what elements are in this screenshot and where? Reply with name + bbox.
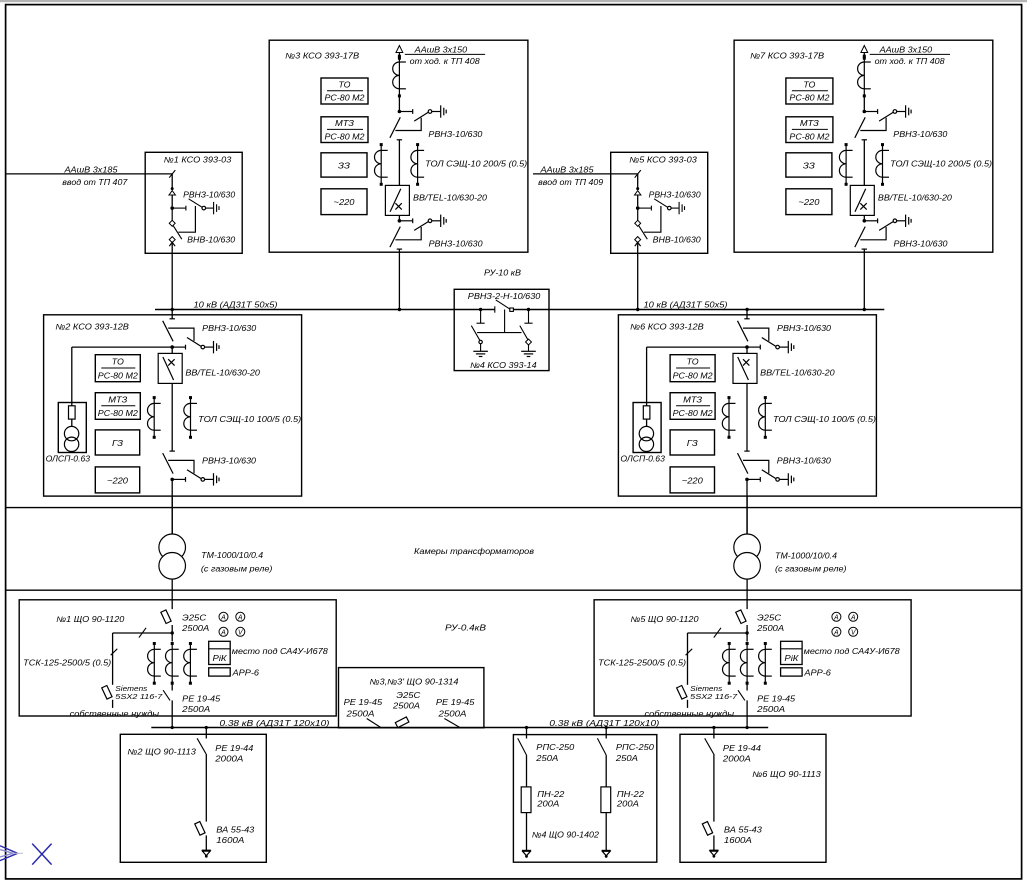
- breaker ВА 55-43 1600А: [195, 822, 205, 836]
- svg-text:от ход. к ТП 408: от ход. к ТП 408: [410, 57, 481, 66]
- svg-text:2500А: 2500А: [345, 710, 374, 719]
- svg-text:АAшВ 3х150: АAшВ 3х150: [414, 46, 468, 55]
- svg-text:200А: 200А: [616, 800, 639, 809]
- wire from bus: [746, 310, 748, 319]
- ammeter: [832, 627, 841, 636]
- relay box ГЗ: [95, 430, 139, 455]
- node: bus junction cell 5: [636, 308, 639, 311]
- current transformer ТОЛ СЭЩ-10 100/5 right: [184, 396, 197, 439]
- wire: 0.38 kV busbar right: [523, 727, 768, 729]
- svg-text:5SX2 116-7: 5SX2 116-7: [115, 692, 163, 701]
- device АРР-6: [781, 668, 803, 676]
- svg-text:РС-80 М2: РС-80 М2: [325, 132, 366, 141]
- panel box №2 ЩО 90-1113: [120, 734, 266, 862]
- panel box №5 ЩО 90-1120: [594, 600, 911, 716]
- svg-text:РЕ 19-45: РЕ 19-45: [182, 695, 221, 704]
- svg-text:2500А: 2500А: [392, 702, 420, 711]
- svg-text:РВНЗ-10/630: РВНЗ-10/630: [202, 456, 257, 465]
- wire: [746, 383, 748, 451]
- svg-text:№3,№3' ЩО 90-1314: №3,№3' ЩО 90-1314: [370, 677, 460, 686]
- svg-text:РЕ 19-44: РЕ 19-44: [215, 744, 254, 753]
- hinge square: [510, 308, 514, 311]
- svg-text:2500А: 2500А: [756, 624, 784, 633]
- wire: 10 kV busbar left section: [155, 309, 495, 311]
- voltage transformer circles: [64, 426, 78, 440]
- svg-text:МТЗ: МТЗ: [108, 395, 127, 404]
- svg-text:ТОЛ СЭЩ-10 200/5 (0.5): ТОЛ СЭЩ-10 200/5 (0.5): [890, 160, 992, 169]
- wire + outgoing arrow: [605, 813, 607, 850]
- svg-text:МТЗ: МТЗ: [683, 395, 702, 404]
- disconnector РВНЗ-10/630 upper: [390, 105, 446, 140]
- svg-text:ВНВ-10/630: ВНВ-10/630: [187, 235, 236, 244]
- svg-text:№1 КСО 393-03: №1 КСО 393-03: [164, 156, 232, 165]
- svg-text:А: А: [833, 615, 839, 622]
- svg-text:ОЛСП-0.63: ОЛСП-0.63: [46, 454, 91, 463]
- svg-text:А: А: [850, 615, 856, 622]
- svg-text:РВНЗ-10/630: РВНЗ-10/630: [202, 324, 257, 333]
- svg-text:10 кВ (АД31Т 50х5): 10 кВ (АД31Т 50х5): [644, 300, 728, 309]
- wire: [171, 383, 173, 451]
- node: [525, 726, 528, 729]
- svg-text:№5 ЩО 90-1120: №5 ЩО 90-1120: [631, 615, 700, 624]
- svg-text:Э25С: Э25С: [757, 614, 781, 623]
- node: [205, 726, 208, 729]
- earthing switch 1: [479, 308, 482, 311]
- switch РЕ 19-45 2500А: [746, 681, 748, 690]
- svg-text:ПН-22: ПН-22: [537, 790, 565, 799]
- svg-text:ВВ/TEL-10/630-20: ВВ/TEL-10/630-20: [760, 368, 835, 377]
- disconnector РВНЗ-10/630 upper: [163, 319, 219, 354]
- svg-text:№5 КСО 393-03: №5 КСО 393-03: [629, 156, 697, 165]
- wire + bracket: [637, 208, 639, 221]
- svg-text:№2 ЩО 90-1113: №2 ЩО 90-1113: [127, 748, 196, 757]
- top gray strip: [0, 0, 1027, 2]
- panel box №4 ЩО 90-1402: [513, 735, 656, 863]
- wire: [713, 754, 715, 822]
- cable slash mark: [169, 170, 175, 178]
- wire: cable ААшВ 3х185 from ТП 407: [6, 173, 172, 175]
- wire + outgoing arrow: [205, 835, 207, 850]
- svg-text:АAшВ 3х185: АAшВ 3х185: [539, 165, 594, 174]
- ground 2: [521, 351, 536, 356]
- svg-text:ТСК-125-2500/5 (0.5): ТСК-125-2500/5 (0.5): [23, 658, 111, 667]
- relay box ~220: [670, 467, 714, 493]
- svg-text:ТОЛ СЭЩ-10 200/5 (0.5): ТОЛ СЭЩ-10 200/5 (0.5): [425, 160, 527, 169]
- svg-text:ГЗ: ГЗ: [112, 439, 123, 448]
- relay box ТО / РС-80 М2: [670, 355, 715, 382]
- circuit breaker Э25С 2500А: [161, 610, 171, 624]
- wire: down to 10kV bus: [637, 242, 639, 309]
- relay box МТЗ / РС-80 М2: [786, 117, 833, 143]
- svg-text:2000А: 2000А: [722, 755, 751, 764]
- svg-text:~220: ~220: [798, 198, 820, 207]
- node: [171, 726, 174, 729]
- wire: section divider between transformer chambers and RU-0.4kV: [6, 589, 1022, 591]
- wire: drop into cell: [171, 174, 173, 188]
- wire: [205, 754, 207, 822]
- svg-text:1600А: 1600А: [216, 836, 244, 845]
- svg-text:РС-80 М2: РС-80 М2: [98, 371, 139, 380]
- svg-text:ВВ/TEL-10/630-20: ВВ/TEL-10/630-20: [185, 368, 260, 377]
- relay box ЗЗ: [786, 153, 832, 177]
- meter slot РіК / место под СА4У-И678: [209, 641, 231, 664]
- wire: 10 kV busbar right section: [513, 309, 884, 311]
- wire from transformer: [746, 600, 748, 609]
- svg-text:МТЗ: МТЗ: [335, 119, 354, 128]
- svg-text:РС-80 М2: РС-80 М2: [98, 409, 139, 418]
- svg-text:200А: 200А: [536, 800, 559, 809]
- svg-text:Э25С: Э25С: [182, 614, 206, 623]
- svg-text:РВНЗ-10/630: РВНЗ-10/630: [893, 130, 948, 139]
- sectionalizer blade: [496, 300, 511, 310]
- svg-text:ТОЛ СЭЩ-10 100/5 (0.5): ТОЛ СЭЩ-10 100/5 (0.5): [198, 415, 301, 424]
- wire: to transformer: [746, 479, 748, 534]
- svg-text:ввод от ТП 407: ввод от ТП 407: [62, 178, 128, 187]
- svg-text:собственные нужды: собственные нужды: [70, 709, 160, 718]
- svg-text:ЗЗ: ЗЗ: [803, 161, 815, 170]
- disconnector РВНЗ-10/630 upper: [738, 319, 794, 354]
- disconnector РВНЗ-10/630 lower: [163, 451, 219, 486]
- svg-text:А: А: [237, 615, 243, 622]
- circuit breaker Э25С 2500А: [736, 610, 746, 624]
- svg-text:~220: ~220: [682, 476, 704, 485]
- wire: [863, 215, 865, 220]
- svg-text:0.38 кВ (АД31Т 120х10): 0.38 кВ (АД31Т 120х10): [220, 719, 330, 728]
- svg-text:ТО: ТО: [112, 358, 124, 367]
- current transformer ТОЛ СЭЩ-10 200/5 right: [876, 143, 889, 186]
- switch РПС-250 250А: [597, 738, 606, 755]
- center link: [504, 310, 506, 333]
- switch РЕ 19-44 2000А: [705, 738, 714, 754]
- svg-text:РВНЗ-10/630: РВНЗ-10/630: [183, 191, 236, 200]
- wire from bus: [205, 728, 207, 739]
- wire: [171, 347, 173, 353]
- svg-text:2500А: 2500А: [756, 705, 785, 714]
- svg-text:ТОЛ СЭЩ-10 100/5 (0.5): ТОЛ СЭЩ-10 100/5 (0.5): [773, 415, 876, 424]
- left bus fixed contact: [494, 306, 496, 312]
- svg-text:№6 КСО 393-12В: №6 КСО 393-12В: [630, 322, 704, 331]
- wire + outgoing arrow: [526, 813, 528, 850]
- disconnector РВНЗ-10/630 with earthing switch: [170, 206, 174, 210]
- vacuum breaker ВВ/TEL-10/630-20: [385, 185, 409, 215]
- panel box №6 ЩО 90-1113: [680, 734, 826, 862]
- svg-text:0.38 кВ (АД31Т 120х10): 0.38 кВ (АД31Т 120х10): [549, 719, 659, 728]
- relay box ТО / РС-80 М2: [95, 355, 140, 382]
- relay box ~220: [321, 189, 367, 215]
- meter slot РіК / место под СА4У-И678: [781, 641, 803, 664]
- device АРР-6: [209, 668, 231, 676]
- switch РПС-250 250А: [518, 738, 527, 755]
- ammeter: [236, 612, 245, 621]
- svg-text:ПН-22: ПН-22: [617, 790, 645, 799]
- current transformer ТОЛ СЭЩ-10 100/5 left: [722, 396, 735, 439]
- vacuum breaker ВВ/TEL-10/630-20: [733, 353, 757, 383]
- current transformer ТСК-125-2500/5 phase C: [759, 642, 772, 685]
- relay box ГЗ: [670, 430, 714, 455]
- wire + bracket: [171, 208, 173, 221]
- vacuum breaker ВВ/TEL-10/630-20: [850, 185, 874, 215]
- svg-text:ВВ/TEL-10/630-20: ВВ/TEL-10/630-20: [413, 194, 488, 203]
- current transformer ТСК-125-2500/5 phase A: [723, 642, 736, 685]
- relay box ~220: [95, 467, 139, 493]
- panel box №1 КСО 393-03: [145, 152, 242, 253]
- relay box ЗЗ: [321, 153, 367, 177]
- cable termination: [635, 187, 641, 195]
- wire: to 0.38 kV bus: [746, 700, 748, 727]
- cable reactor coils: [858, 55, 871, 98]
- breaker Siemens 5SX2 116-7: [677, 685, 687, 699]
- wire: [605, 755, 607, 787]
- tap to own needs: [688, 632, 748, 634]
- svg-text:№3 КСО 393-17В: №3 КСО 393-17В: [285, 52, 360, 61]
- transformer ТМ-1000/10/0.4 left: [171, 496, 173, 534]
- transformer ТМ-1000/10/0.4 right: [746, 496, 748, 534]
- svg-text:АAшВ 3х185: АAшВ 3х185: [63, 165, 118, 174]
- node: bus junction cell 7: [863, 308, 866, 311]
- voltage transformer circles: [639, 426, 653, 440]
- wire: drop into cell: [637, 174, 639, 188]
- svg-text:ВВ/TEL-10/630-20: ВВ/TEL-10/630-20: [878, 194, 953, 203]
- svg-text:РВНЗ-10/630: РВНЗ-10/630: [428, 130, 483, 139]
- svg-text:5SX2 116-7: 5SX2 116-7: [690, 692, 738, 701]
- ОЛСП-0.63 cabinet box: [633, 403, 661, 453]
- wire from bus: [171, 310, 173, 319]
- relay box ТО / РС-80 М2: [321, 78, 368, 104]
- wire: [398, 139, 400, 185]
- wire: [398, 215, 400, 220]
- svg-text:РС-80 М2: РС-80 М2: [325, 94, 366, 103]
- wire: 0.38 kV busbar left: [151, 727, 523, 729]
- svg-text:2000А: 2000А: [214, 755, 243, 764]
- svg-text:ввод от ТП 409: ввод от ТП 409: [538, 178, 604, 187]
- svg-text:(с газовым реле): (с газовым реле): [201, 565, 273, 574]
- wire: [863, 139, 865, 185]
- ОЛСП-0.63 cabinet box: [58, 403, 86, 453]
- svg-text:2500А: 2500А: [181, 624, 209, 633]
- svg-text:РС-80 М2: РС-80 М2: [789, 94, 830, 103]
- svg-text:ВА 55-43: ВА 55-43: [724, 825, 763, 834]
- svg-text:РС-80 М2: РС-80 М2: [789, 132, 830, 141]
- outgoing feeder arrow: [863, 50, 865, 57]
- node: [605, 726, 608, 729]
- svg-text:№4 ЩО 90-1402: №4 ЩО 90-1402: [532, 831, 600, 840]
- relay box МТЗ / РС-80 М2: [670, 393, 715, 420]
- current transformer ТСК-125-2500/5 phase B: [740, 642, 753, 685]
- svg-text:РВНЗ-10/630: РВНЗ-10/630: [894, 239, 949, 248]
- svg-text:№1 ЩО 90-1120: №1 ЩО 90-1120: [56, 615, 125, 624]
- svg-text:ВА 55-43: ВА 55-43: [216, 825, 255, 834]
- svg-text:РВНЗ-10/630: РВНЗ-10/630: [429, 239, 484, 248]
- svg-text:РС-80 М2: РС-80 М2: [673, 371, 714, 380]
- svg-text:РіК: РіК: [784, 654, 800, 663]
- svg-text:А: А: [220, 615, 226, 622]
- wire + outgoing arrow: [713, 835, 715, 850]
- svg-text:А: А: [220, 630, 226, 637]
- ground 1: [473, 351, 488, 356]
- ammeter: [832, 612, 841, 621]
- current transformer ТОЛ СЭЩ-10 100/5 right: [759, 396, 772, 439]
- svg-text:250А: 250А: [535, 754, 558, 763]
- ammeter: [849, 612, 858, 621]
- svg-text:(с газовым реле): (с газовым реле): [775, 565, 847, 574]
- node: bus junction cell 1/2: [171, 308, 174, 311]
- svg-text:1600А: 1600А: [724, 836, 752, 845]
- current transformer ТОЛ СЭЩ-10 200/5 left: [375, 143, 388, 186]
- wire: [746, 347, 748, 353]
- ammeter: [219, 612, 228, 621]
- panel box №5 КСО 393-03: [611, 152, 708, 253]
- current transformer ТСК-125-2500/5 phase C: [184, 642, 197, 685]
- node: bus junction cell 3: [398, 308, 401, 311]
- svg-text:РУ-10 кВ: РУ-10 кВ: [484, 269, 522, 278]
- svg-text:ТО: ТО: [687, 358, 699, 367]
- panel box №6 КСО 393-12В: [618, 315, 876, 496]
- disconnector РВНЗ-10/630 with earthing switch: [636, 206, 640, 210]
- panel box №4 КСО 393-14: [454, 289, 549, 370]
- svg-text:№6 ЩО 90-1113: №6 ЩО 90-1113: [752, 770, 821, 779]
- svg-text:РЕ 19-45: РЕ 19-45: [344, 698, 383, 707]
- svg-text:№2 КСО 393-12В: №2 КСО 393-12В: [55, 322, 129, 331]
- svg-text:РВНЗ-10/630: РВНЗ-10/630: [777, 324, 832, 333]
- earthing switch 2: [527, 308, 530, 311]
- svg-text:2500А: 2500А: [181, 705, 210, 714]
- svg-text:~220: ~220: [107, 476, 129, 485]
- panel box №2 КСО 393-12В: [44, 315, 302, 496]
- current transformer ТОЛ СЭЩ-10 200/5 left: [839, 143, 852, 186]
- load-break switch ВНВ-10/630: [169, 220, 175, 226]
- fuse: [643, 406, 650, 419]
- wire: [746, 625, 748, 642]
- relay box МТЗ / РС-80 М2: [321, 117, 368, 143]
- svg-text:Э25С: Э25С: [396, 691, 420, 700]
- current transformer ТСК-125-2500/5 phase A: [148, 642, 161, 685]
- svg-text:РЕ 19-45: РЕ 19-45: [436, 698, 475, 707]
- tap to voltage transformer ОЛСП: [647, 346, 747, 348]
- disconnector РВНЗ-10/630 lower: [390, 215, 446, 250]
- svg-text:А: А: [833, 630, 839, 637]
- panel box №3 КСО 393-17В: [269, 40, 528, 252]
- switch РЕ 19-44 2000А: [197, 738, 206, 754]
- panel box №3,№3' ЩО 90-1314: [339, 668, 484, 728]
- wire: cable ААшВ 3х185 from ТП 409: [533, 173, 638, 175]
- svg-text:место под СА4У-И678: место под СА4У-И678: [804, 647, 901, 656]
- svg-text:ВНВ-10/630: ВНВ-10/630: [653, 235, 702, 244]
- disconnector РВНЗ-10/630 upper: [855, 105, 911, 140]
- svg-text:РВНЗ-10/630: РВНЗ-10/630: [649, 191, 702, 200]
- svg-text:ГЗ: ГЗ: [687, 439, 698, 448]
- wire: down to 10 kV bus: [398, 249, 400, 309]
- switch РЕ 19-45 2500А: [171, 681, 173, 690]
- wire: to transformer: [171, 479, 173, 534]
- switch РЕ 19-45 left: [367, 719, 381, 728]
- svg-text:РС-80 М2: РС-80 М2: [673, 409, 714, 418]
- tap to voltage transformer ОЛСП: [72, 346, 172, 348]
- svg-text:ТМ-1000/10/0.4: ТМ-1000/10/0.4: [201, 551, 264, 560]
- ammeter: [219, 627, 228, 636]
- current transformer ТОЛ СЭЩ-10 100/5 left: [148, 396, 161, 439]
- wire from bus: [713, 728, 715, 739]
- disconnector РВНЗ-10/630 lower: [855, 215, 911, 250]
- relay box ~220: [786, 189, 832, 215]
- svg-text:РіК: РіК: [213, 654, 229, 663]
- cable reactor coils: [393, 55, 406, 98]
- disconnector РВНЗ-10/630 lower: [738, 451, 794, 486]
- cable termination: [169, 187, 175, 195]
- svg-text:ТО: ТО: [339, 81, 351, 90]
- fuse: [69, 406, 76, 419]
- svg-text:РПС-250: РПС-250: [536, 743, 575, 752]
- svg-text:2500А: 2500А: [437, 710, 466, 719]
- voltmeter: [849, 627, 858, 636]
- svg-text:ЗЗ: ЗЗ: [338, 161, 350, 170]
- svg-text:АAшВ 3х150: АAшВ 3х150: [878, 46, 932, 55]
- blue revision arrow: [0, 846, 23, 861]
- breaker Siemens 5SX2 116-7: [102, 685, 112, 699]
- svg-text:ОЛСП-0.63: ОЛСП-0.63: [620, 454, 665, 463]
- panel box №1 ЩО 90-1120: [19, 600, 336, 716]
- wire: down to 10kV bus: [171, 242, 173, 309]
- current transformer ТСК-125-2500/5 phase B: [166, 642, 179, 685]
- svg-text:МТЗ: МТЗ: [800, 119, 819, 128]
- svg-text:РУ-0.4кВ: РУ-0.4кВ: [445, 624, 487, 633]
- svg-text:ТО: ТО: [803, 81, 815, 90]
- svg-text:собственные нужды: собственные нужды: [645, 709, 735, 718]
- svg-text:РЕ 19-44: РЕ 19-44: [723, 744, 762, 753]
- svg-text:10 кВ (АД31Т 50х5): 10 кВ (АД31Т 50х5): [194, 300, 278, 309]
- vacuum breaker ВВ/TEL-10/630-20: [158, 353, 182, 383]
- svg-text:от ход. к ТП 408: от ход. к ТП 408: [875, 57, 946, 66]
- svg-text:№4 КСО 393-14: №4 КСО 393-14: [470, 361, 537, 370]
- svg-text:РВНЗ-2-Н-10/630: РВНЗ-2-Н-10/630: [468, 292, 541, 301]
- current transformer ТОЛ СЭЩ-10 200/5 right: [411, 143, 424, 186]
- cable slash mark: [635, 170, 641, 178]
- wire: [171, 625, 173, 642]
- wire: [526, 755, 528, 787]
- load-break switch ВНВ-10/630: [635, 220, 641, 226]
- svg-text:ТМ-1000/10/0.4: ТМ-1000/10/0.4: [775, 551, 838, 560]
- outgoing feeder arrow: [398, 50, 400, 57]
- panel box №7 КСО 393-17В: [734, 40, 993, 252]
- fuse ПН-22 200А: [601, 787, 611, 813]
- node: bus junction cell 6: [745, 308, 748, 311]
- svg-text:РЕ 19-45: РЕ 19-45: [757, 695, 796, 704]
- breaker Э25С 2500А: [395, 717, 409, 728]
- relay box ТО / РС-80 М2: [786, 78, 833, 104]
- tap to own needs: [113, 632, 173, 634]
- svg-text:~220: ~220: [334, 198, 356, 207]
- wire from bus: [605, 728, 607, 739]
- svg-text:РВНЗ-10/630: РВНЗ-10/630: [777, 456, 832, 465]
- voltmeter: [236, 627, 245, 636]
- node: [712, 726, 715, 729]
- wire: to 0.38 kV bus: [171, 700, 173, 727]
- svg-text:ТСК-125-2500/5 (0.5): ТСК-125-2500/5 (0.5): [598, 658, 686, 667]
- svg-text:АРР-6: АРР-6: [803, 669, 831, 678]
- switch РЕ 19-45 right: [444, 719, 460, 728]
- breaker ВА 55-43 1600А: [702, 822, 712, 836]
- svg-text:250А: 250А: [615, 754, 638, 763]
- wire from bus: [526, 728, 528, 739]
- wire: section divider between RU-10kV and transformer chambers: [6, 507, 1022, 509]
- node: [746, 726, 749, 729]
- blue X mark: [32, 844, 51, 865]
- relay box МТЗ / РС-80 М2: [95, 393, 140, 420]
- wire: [863, 96, 865, 112]
- svg-text:РПС-250: РПС-250: [616, 743, 655, 752]
- wire: down to 10 kV bus: [863, 249, 865, 309]
- fuse ПН-22 200А: [521, 787, 531, 813]
- svg-text:№7 КСО 393-17В: №7 КСО 393-17В: [750, 52, 825, 61]
